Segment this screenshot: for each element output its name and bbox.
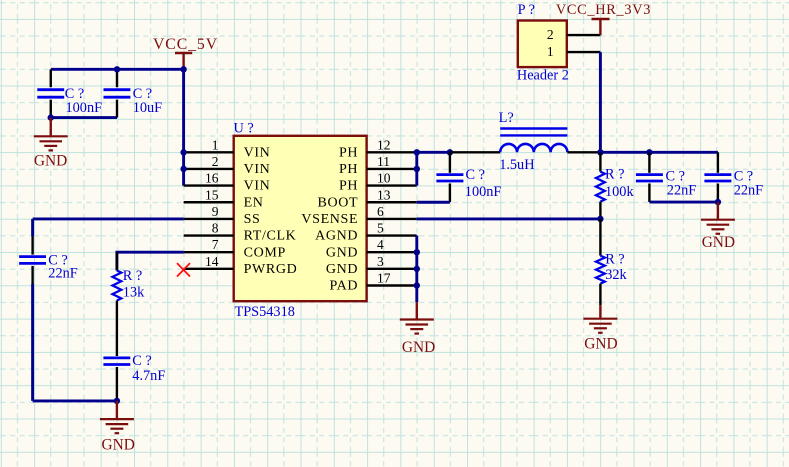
capacitor C5 100nF boot bbox=[436, 152, 501, 202]
svg-text:22nF: 22nF bbox=[734, 182, 763, 198]
capacitor C1 100nF bbox=[37, 69, 102, 117]
svg-text:10uF: 10uF bbox=[133, 100, 162, 116]
capacitor C4 4.7nF bbox=[103, 353, 165, 401]
wire PH bus vertical bbox=[415, 152, 418, 185]
capacitor C6 22nF bbox=[636, 152, 696, 202]
svg-text:R ?: R ? bbox=[605, 167, 624, 183]
wire BOOT to cap bbox=[417, 201, 450, 204]
wire bottom-left link bbox=[33, 399, 117, 402]
svg-text:BOOT: BOOT bbox=[317, 195, 358, 210]
svg-text:100k: 100k bbox=[605, 184, 634, 200]
svg-text:R ?: R ? bbox=[123, 268, 142, 284]
wire VIN bus vertical bbox=[182, 69, 185, 185]
U1 pin 2 VIN bbox=[184, 154, 271, 177]
U1 pin 10 PH bbox=[339, 171, 417, 194]
junction dot C2 top bbox=[114, 66, 120, 72]
svg-text:PH: PH bbox=[339, 162, 358, 177]
svg-text:6: 6 bbox=[377, 204, 384, 219]
U1 pin 9 SS bbox=[184, 204, 261, 227]
svg-text:GND: GND bbox=[584, 336, 617, 353]
svg-text:8: 8 bbox=[212, 221, 219, 236]
svg-text:VIN: VIN bbox=[244, 145, 271, 160]
svg-text:10: 10 bbox=[377, 171, 391, 186]
svg-text:13k: 13k bbox=[123, 284, 145, 300]
op-amp U? TPS54318 IC body bbox=[234, 121, 367, 320]
svg-text:PWRGD: PWRGD bbox=[244, 262, 298, 277]
U1 pin 15 EN bbox=[184, 187, 264, 210]
svg-text:PH: PH bbox=[339, 145, 358, 160]
junction dot PH pin12 bbox=[414, 149, 420, 155]
svg-text:GND: GND bbox=[326, 245, 358, 260]
svg-text:5: 5 bbox=[377, 221, 384, 236]
svg-text:GND: GND bbox=[702, 234, 735, 251]
wire AGND/GND bus vertical bbox=[415, 236, 418, 286]
svg-text:2: 2 bbox=[212, 154, 219, 169]
junction dot C1 bottom bbox=[48, 114, 54, 120]
inductor L1 bbox=[450, 110, 601, 173]
capacitor C3 22nF left bbox=[19, 236, 78, 284]
svg-text:RT/CLK: RT/CLK bbox=[244, 229, 297, 244]
capacitor C7 22nF bbox=[704, 152, 763, 202]
svg-text:VCC_HR_3V3: VCC_HR_3V3 bbox=[556, 2, 651, 18]
power port VCC_HR_3V3 bbox=[556, 2, 651, 35]
svg-text:AGND: AGND bbox=[315, 229, 358, 244]
svg-text:15: 15 bbox=[205, 187, 219, 202]
wire VCC_5V top rail from C1 to VIN bus bbox=[51, 68, 184, 71]
power port VCC_5V bbox=[153, 36, 218, 69]
U1 pin 11 PH bbox=[339, 154, 417, 177]
svg-text:U ?: U ? bbox=[234, 121, 254, 137]
svg-text:GND: GND bbox=[402, 339, 435, 356]
U1 pin 14 PWRGD bbox=[184, 254, 298, 277]
resistor R2 100k bbox=[596, 152, 635, 219]
svg-text:11: 11 bbox=[377, 154, 390, 169]
U1 pin 17 PAD bbox=[330, 271, 417, 294]
U1 pin 6 VSENSE bbox=[301, 204, 416, 227]
P1 pin 1 bbox=[547, 44, 601, 59]
wire COMP to R13k bbox=[117, 252, 184, 270]
junction dot GND bus pin17 bbox=[414, 282, 420, 288]
svg-text:C ?: C ? bbox=[132, 353, 151, 369]
resistor R1 13k bbox=[112, 252, 145, 356]
svg-text:4: 4 bbox=[377, 237, 384, 252]
ground GND right caps bbox=[701, 202, 735, 251]
svg-text:16: 16 bbox=[205, 171, 219, 186]
U1 pin 3 GND bbox=[326, 254, 417, 277]
svg-text:14: 14 bbox=[205, 254, 219, 269]
P1 pin 2 bbox=[547, 27, 601, 42]
U1 pin 5 AGND bbox=[315, 221, 417, 244]
svg-text:GND: GND bbox=[34, 153, 67, 170]
wire C1-C2 ground link bbox=[51, 116, 117, 119]
ground GND under C1 bbox=[34, 118, 68, 170]
U1 pin 16 VIN bbox=[184, 171, 271, 194]
svg-text:GND: GND bbox=[326, 262, 358, 277]
svg-text:100nF: 100nF bbox=[465, 184, 502, 200]
svg-text:1: 1 bbox=[547, 44, 554, 59]
ground GND under R32k bbox=[583, 305, 617, 352]
junction dot boot cap top bbox=[447, 149, 453, 155]
wire left loop vertical bbox=[31, 219, 34, 401]
junction dot right caps gnd bbox=[715, 199, 721, 205]
wire PH output to inductor bbox=[417, 151, 450, 154]
U1 pin 8 RT/CLK bbox=[184, 221, 297, 244]
svg-text:2: 2 bbox=[547, 27, 554, 42]
wire right caps bottom link bbox=[649, 201, 718, 204]
svg-text:C ?: C ? bbox=[466, 167, 485, 183]
svg-text:3: 3 bbox=[377, 254, 384, 269]
svg-text:Header 2: Header 2 bbox=[517, 68, 569, 84]
svg-text:9: 9 bbox=[212, 204, 219, 219]
U1 pin 1 VIN bbox=[184, 137, 271, 160]
junction dot output node bbox=[597, 149, 603, 155]
ground GND bottom-left bbox=[100, 401, 135, 454]
resistor R3 32k bbox=[596, 219, 628, 305]
svg-text:22nF: 22nF bbox=[667, 182, 696, 198]
svg-text:100nF: 100nF bbox=[66, 100, 103, 116]
svg-text:EN: EN bbox=[244, 195, 264, 210]
wire output node to right caps bbox=[600, 151, 718, 154]
U1 pin 12 PH bbox=[339, 137, 417, 160]
capacitor C2 10uF bbox=[104, 69, 163, 117]
svg-text:GND: GND bbox=[102, 436, 135, 453]
svg-text:COMP: COMP bbox=[244, 245, 286, 260]
svg-text:VSENSE: VSENSE bbox=[301, 212, 358, 227]
junction dot C22nF-a top bbox=[646, 149, 652, 155]
svg-text:P ?: P ? bbox=[518, 2, 535, 18]
U1 pin 13 BOOT bbox=[317, 187, 416, 210]
svg-text:R ?: R ? bbox=[605, 252, 624, 268]
svg-text:12: 12 bbox=[377, 137, 391, 152]
junction dot bottom-left node bbox=[114, 398, 120, 404]
junction dot GND bus pin4 bbox=[414, 249, 420, 255]
svg-text:1.5uH: 1.5uH bbox=[499, 157, 534, 173]
svg-text:VIN: VIN bbox=[244, 162, 271, 177]
svg-text:1: 1 bbox=[212, 137, 219, 152]
svg-text:PH: PH bbox=[339, 179, 358, 194]
svg-text:32k: 32k bbox=[605, 267, 627, 283]
ground GND under IC bbox=[400, 286, 435, 357]
junction dot VIN bus pin2 bbox=[180, 166, 186, 172]
wire SS to left loop bbox=[33, 217, 184, 220]
svg-text:VCC_5V: VCC_5V bbox=[153, 36, 218, 53]
no-ERC marker X on pin 14 bbox=[177, 263, 190, 276]
svg-text:L?: L? bbox=[499, 110, 514, 126]
svg-text:TPS54318: TPS54318 bbox=[235, 304, 295, 320]
junction dot GND bus pin3 bbox=[414, 266, 420, 272]
svg-text:SS: SS bbox=[244, 212, 261, 227]
wire VSENSE feedback bbox=[417, 217, 601, 220]
svg-text:17: 17 bbox=[377, 271, 391, 286]
junction dot VCC_5V bbox=[180, 66, 186, 72]
svg-text:4.7nF: 4.7nF bbox=[132, 368, 165, 384]
connector P? Header 2 body bbox=[517, 2, 569, 84]
U1 pin 7 COMP bbox=[184, 237, 286, 260]
junction dot PH pin11 bbox=[414, 166, 420, 172]
junction dot VIN bus pin1 bbox=[180, 149, 186, 155]
svg-text:22nF: 22nF bbox=[48, 265, 77, 281]
svg-text:VIN: VIN bbox=[244, 179, 271, 194]
junction dot feedback node bbox=[597, 216, 603, 222]
U1 pin 4 GND bbox=[326, 237, 417, 260]
svg-text:PAD: PAD bbox=[330, 279, 359, 294]
svg-text:13: 13 bbox=[377, 187, 391, 202]
svg-text:7: 7 bbox=[212, 237, 219, 252]
wire header pin1 to output node bbox=[599, 52, 602, 152]
